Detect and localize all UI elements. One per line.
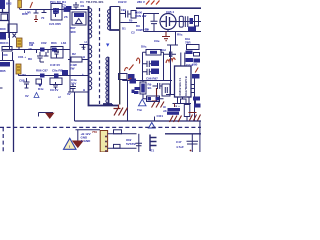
node X mark <box>13 34 17 38</box>
svg-text:C93: C93 <box>121 8 126 12</box>
junction ticks <box>25 50 59 54</box>
capacitor Cb <box>42 10 47 13</box>
capacitor C804 <box>44 52 49 56</box>
small box component <box>119 74 135 80</box>
red scribble annotation m <box>166 58 175 63</box>
pin box <box>181 99 187 104</box>
polarity mark <box>106 44 109 47</box>
capacitor C802 (yellow) <box>16 64 21 76</box>
transformer secondary top winding <box>107 10 110 31</box>
svg-text:V80: V80 <box>192 63 198 67</box>
ground red G2 <box>162 32 170 41</box>
wire top-left vertical <box>0 0 9 38</box>
ground red G5 hatches <box>170 116 182 123</box>
wire vertical <box>127 81 129 122</box>
svg-text:H: H <box>83 88 85 92</box>
box <box>162 84 170 96</box>
svg-text:Z6: Z6 <box>64 15 68 19</box>
wire <box>74 92 76 121</box>
resistor R811 vertical <box>140 81 146 99</box>
svg-text:9G: 9G <box>148 86 153 90</box>
resistor R807 <box>68 57 89 62</box>
label box in R810 <box>150 51 157 54</box>
wire <box>123 80 173 81</box>
red tick <box>129 78 132 80</box>
transformer core dashed <box>99 8 101 105</box>
label small boxes right <box>186 51 193 55</box>
svg-text:B02: B02 <box>6 2 12 6</box>
ground red Ga <box>34 15 38 22</box>
svg-text:R2: R2 <box>72 52 76 56</box>
capacitor inside <box>53 8 58 17</box>
svg-text:C81 +: C81 + <box>18 55 26 59</box>
box PCa <box>51 4 62 21</box>
relay K801 solid box <box>0 0 5 9</box>
svg-text:R9: R9 <box>28 57 32 61</box>
wire lower horizontal <box>19 75 89 77</box>
svg-text:78R: 78R <box>185 41 191 45</box>
red slash a <box>30 2 33 8</box>
svg-text:R80 K: R80 K <box>0 41 9 45</box>
svg-text:280 V: 280 V <box>137 0 145 4</box>
warning triangle <box>34 93 39 98</box>
capacitor C811 electrolytic <box>131 11 136 19</box>
resistor R802 on wire <box>2 47 12 52</box>
svg-text:C9e: C9e <box>154 39 160 43</box>
box right <box>187 45 200 50</box>
svg-text:C9W: C9W <box>136 28 143 32</box>
IC U801 <box>175 66 192 97</box>
capacitor C805 <box>54 49 59 58</box>
label box D802 <box>62 70 68 75</box>
wires <box>143 52 164 80</box>
ground red G6 <box>189 113 201 121</box>
off-page arrow <box>39 113 54 117</box>
rectifier box <box>144 14 160 32</box>
arrow head dark red 2 <box>72 141 84 149</box>
svg-text:70: 70 <box>41 16 45 20</box>
blue dot <box>132 90 135 94</box>
capacitor C816 <box>143 69 153 75</box>
svg-text:R9: R9 <box>145 28 149 32</box>
ground red G5 <box>174 104 176 108</box>
fuse F801 (yellow) <box>18 0 22 10</box>
maroon wire <box>156 88 158 101</box>
resistor R804 on wire <box>52 48 57 52</box>
svg-text:C9N 2W: C9N 2W <box>135 14 147 18</box>
wire <box>0 52 14 61</box>
IC pins top <box>181 53 185 67</box>
transformer secondary top rail <box>110 7 120 31</box>
svg-text:C2: C2 <box>131 31 135 35</box>
wire vertical <box>192 121 200 152</box>
wire lower <box>144 31 202 33</box>
svg-text:5VSTB: 5VSTB <box>126 142 137 146</box>
wire secondary to rectifier <box>110 6 120 8</box>
label row above mid wire <box>29 41 67 45</box>
node stub left edge <box>0 87 3 89</box>
diode D803 arrow <box>38 84 42 87</box>
wire <box>120 13 126 15</box>
svg-text:C88: C88 <box>19 79 25 83</box>
wire <box>167 32 178 54</box>
label box <box>74 13 84 17</box>
svg-text:D9c: D9c <box>141 45 147 49</box>
svg-text:R81: R81 <box>29 41 35 45</box>
resistor R801 <box>8 24 17 33</box>
svg-text:+: + <box>82 72 84 76</box>
resistor R812 horizontal <box>143 96 164 102</box>
long dark vertical <box>119 7 121 105</box>
arrow head dark red <box>45 113 55 119</box>
svg-text:4.7uF: 4.7uF <box>176 145 184 149</box>
red slashes annotation <box>146 1 160 5</box>
label box C816 <box>151 69 159 75</box>
capacitor C817 <box>153 83 163 89</box>
label box inside PCa <box>53 8 59 14</box>
wire from connector 2 <box>108 147 137 149</box>
capacitor C813 plates <box>161 16 176 27</box>
label box V1 <box>186 58 194 62</box>
svg-text:C21 R05: C21 R05 <box>49 22 61 26</box>
svg-text:L84: L84 <box>61 41 67 45</box>
capacitor C819 <box>187 141 199 144</box>
diode triangle <box>76 19 83 24</box>
box PC801 <box>51 47 63 59</box>
box D804 bridge <box>72 12 86 25</box>
capacitor C801 (yellow) <box>17 38 23 50</box>
transformer secondary lower winding <box>106 57 109 103</box>
capacitor C818 <box>136 143 143 146</box>
svg-text:R86 C87: R86 C87 <box>36 69 48 73</box>
label top right of IC <box>192 74 200 79</box>
label box below IC 2 <box>167 112 179 115</box>
transformer secondary lower rail <box>103 57 112 106</box>
svg-text:D4x: D4x <box>38 87 44 91</box>
wire <box>195 97 197 104</box>
svg-text:C96 R97: C96 R97 <box>146 77 158 81</box>
svg-text:0V: 0V <box>67 92 71 96</box>
junction tick <box>154 117 156 122</box>
capacitor Ca <box>34 10 39 14</box>
svg-text:R0: R0 <box>129 19 133 23</box>
crystal component <box>150 135 157 152</box>
IC pin left <box>166 54 175 95</box>
label box <box>66 6 72 10</box>
resistor R803 on wire <box>40 48 45 52</box>
svg-text:C82: C82 <box>41 41 47 45</box>
svg-text:TR-F70L40S: TR-F70L40S <box>86 0 103 4</box>
svg-text:A-GND: A-GND <box>81 139 92 143</box>
svg-text:C47: C47 <box>176 140 182 144</box>
svg-text:R83: R83 <box>51 41 57 45</box>
capacitor C813 electrolytic big <box>160 14 176 30</box>
wire drops <box>167 30 169 32</box>
svg-text:T4c: T4c <box>137 108 143 112</box>
svg-text:xx +: xx + <box>174 104 180 108</box>
pin bump <box>114 130 122 134</box>
wire thick top right <box>136 7 201 9</box>
triangle below bus <box>149 123 156 129</box>
transformer winding section4 <box>89 77 92 90</box>
wire out of cap <box>176 21 201 23</box>
red dot <box>190 150 192 152</box>
diode D803 <box>36 79 42 84</box>
dashed border vertical <box>2 127 4 152</box>
ground red G3 <box>114 105 128 116</box>
wire long left vertical <box>13 61 15 153</box>
capacitor C810 <box>126 11 132 18</box>
svg-text:!: ! <box>69 144 70 149</box>
resistor R808 on wire <box>64 7 71 12</box>
capacitor C808 <box>73 2 79 10</box>
svg-text:IC802 BG F1: IC802 BG F1 <box>178 77 182 95</box>
svg-text:D1: D1 <box>122 27 126 31</box>
svg-text:C9 0V: C9 0V <box>50 88 58 92</box>
svg-text:H: H <box>85 40 87 44</box>
label box <box>130 79 137 84</box>
connector J1 box <box>1 14 8 21</box>
label box V2 <box>194 59 201 63</box>
svg-text:R0c: R0c <box>177 33 183 37</box>
wire vertical <box>138 134 140 152</box>
labels <box>81 132 92 143</box>
transformer winding section2 <box>89 45 92 58</box>
wire bottom right <box>165 133 201 135</box>
box PC802 <box>50 78 62 85</box>
svg-text:C4F 0V: C4F 0V <box>50 63 60 67</box>
transformer T801 left rail <box>89 6 119 106</box>
dashed border horizontal <box>0 126 201 128</box>
wire <box>68 91 89 93</box>
label box Q801 <box>0 62 10 67</box>
svg-text:Ct01: Ct01 <box>157 114 164 118</box>
label <box>193 97 200 101</box>
inductor L802 pill <box>179 16 183 27</box>
svg-text:H: H <box>83 55 85 59</box>
svg-text:C5: C5 <box>62 4 66 8</box>
svg-text:R85: R85 <box>0 69 6 73</box>
red slash right <box>195 68 198 73</box>
label box <box>188 27 196 32</box>
label box C815 <box>151 61 159 67</box>
IC pins right <box>191 75 195 121</box>
capacitor C812 <box>151 14 158 32</box>
wire top horizontal <box>20 9 89 11</box>
svg-text:R1: R1 <box>81 4 85 8</box>
wire corner <box>76 130 101 141</box>
connector pins <box>105 136 107 153</box>
wire mid horizontal <box>2 49 70 51</box>
wire from connector <box>108 133 137 135</box>
resistor R806 on wire <box>54 74 59 78</box>
transformer winding section3 <box>89 61 92 74</box>
ground red G4 <box>152 101 165 108</box>
svg-text:E1: E1 <box>151 149 155 153</box>
red scribble eta <box>137 58 140 64</box>
capacitor C807 <box>53 82 58 89</box>
svg-text:750: 750 <box>92 130 97 134</box>
diode D805 <box>135 87 140 90</box>
svg-text:C92 R: C92 R <box>118 0 127 4</box>
ground small <box>80 45 89 50</box>
resistor R805 on wire <box>40 74 45 78</box>
capacitor C806 <box>24 78 30 88</box>
capacitor C815 <box>143 61 153 67</box>
connector P801 yellow <box>100 131 107 153</box>
capacitor C814 <box>164 52 176 58</box>
resistor R810 <box>146 50 161 56</box>
pin bump 2 <box>114 144 121 148</box>
wire <box>121 22 138 24</box>
resistor R809 small box <box>190 18 194 24</box>
svg-text:4R0: 4R0 <box>70 30 76 34</box>
IC pins bottom <box>173 97 192 104</box>
svg-text:L0R: L0R <box>25 11 32 15</box>
IC vertical text <box>178 75 188 96</box>
bus wire <box>75 120 202 122</box>
svg-text:2W: 2W <box>70 67 75 71</box>
resistor R815 box <box>194 53 200 57</box>
svg-text:0V: 0V <box>25 94 29 98</box>
wire <box>69 10 71 93</box>
transformer primary winding <box>89 8 92 38</box>
label box VR801 <box>0 33 6 40</box>
wire <box>0 33 17 50</box>
capacitor C816b <box>185 16 188 27</box>
triangle symbol <box>139 99 147 106</box>
diode D902 box <box>195 16 199 27</box>
svg-text:D80: D80 <box>0 27 6 31</box>
resistor R813 vertical <box>184 105 190 122</box>
label boxes below IC <box>168 108 181 111</box>
svg-text:50V: 50V <box>71 82 76 86</box>
svg-text:KIA78R09PI B: KIA78R09PI B <box>184 75 188 96</box>
warning triangle bottom <box>64 138 77 149</box>
capacitor C809 <box>70 84 76 92</box>
diode D806 <box>134 91 139 94</box>
red curve <box>125 65 134 72</box>
capacitor C803 <box>37 52 44 62</box>
